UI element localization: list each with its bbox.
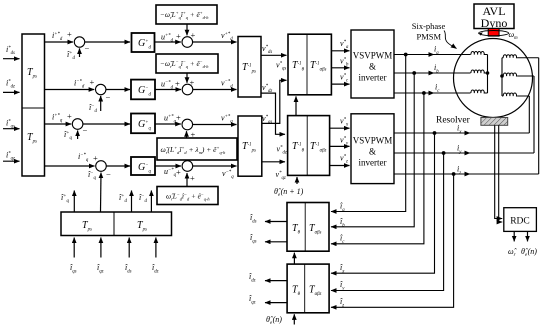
svg-text:+: + (175, 79, 180, 89)
svg-text:v*qz: v*qz (276, 170, 286, 181)
svg-text:v*dz: v*dz (277, 145, 287, 156)
svg-text:îds: îds (250, 213, 257, 225)
svg-text:î+d: î+d (67, 50, 75, 61)
wire feedback ihat-_q into J4 from bottom T_ps (100, 173, 103, 212)
svg-text:+: + (67, 111, 72, 121)
wire theta(n+1) lower to upper Ttheta-1 (295, 96, 297, 115)
sum S4 (182, 161, 193, 172)
svg-text:v−*d: v−*d (221, 79, 233, 90)
right winding star bus (501, 58, 503, 96)
block RDC (504, 208, 537, 232)
svg-text:θ̂e(n): θ̂e(n) (521, 247, 537, 258)
wire theta_e(n) into lower measurement block (293, 314, 295, 324)
svg-text:v−*q: v−*q (222, 169, 234, 180)
junction J4 (96, 161, 107, 172)
junction J2 (96, 84, 106, 94)
wire i_z inverter2 to motor (394, 173, 470, 175)
wire v*_x (330, 127, 350, 129)
wire RDC out theta (527, 231, 529, 241)
svg-text:&: & (369, 147, 376, 157)
wire feedback ihat-_d into J2 (100, 96, 102, 111)
svg-text:i+*q: i+*q (52, 113, 63, 124)
svg-text:inverter: inverter (359, 158, 387, 168)
svg-text:Six-phase: Six-phase (412, 21, 446, 31)
wire S3 to Tps-1 block2 (v+*_q) (193, 124, 237, 126)
wire out ihat-_d bottom blocks (150, 191, 152, 213)
svg-text:v*a: v*a (340, 39, 349, 50)
wire J1 to G+d (85, 41, 130, 43)
wire in ihat_dz bottom (155, 238, 157, 258)
svg-text:î−q: î−q (88, 170, 96, 181)
svg-text:RDC: RDC (510, 217, 530, 227)
svg-text:u−*d: u−*d (161, 80, 174, 91)
feedforward box 3 (157, 138, 237, 160)
svg-text:i*dz: i*dz (6, 79, 15, 90)
svg-text:v*z: v*z (340, 154, 348, 165)
svg-text:inverter: inverter (359, 73, 387, 83)
coupling arrowhead (479, 32, 483, 35)
callout curve to motor (444, 31, 457, 49)
wire out ihat_qs (265, 241, 287, 243)
block Ttheta-1 Talphabeta-1 lower (288, 116, 330, 176)
wire v*_y (330, 145, 350, 147)
svg-text:v*dz: v*dz (262, 83, 272, 94)
junction dot on i_b (412, 71, 416, 75)
svg-text:v+*d: v+*d (221, 31, 233, 42)
svg-text:VSVPWM: VSVPWM (353, 136, 393, 146)
svg-text:îqs: îqs (70, 263, 77, 275)
wire v*_c (331, 83, 349, 85)
sum S2 (182, 84, 193, 95)
block G-q (131, 157, 155, 175)
wire input i*_qz (3, 160, 20, 162)
wire right winding to riser y (mid) (518, 75, 534, 77)
svg-text:ω̂r(L+dî+d + λm) + ê+q-h: ω̂r(L+dî+d + λm) + ê+q-h (161, 145, 227, 155)
svg-text:îqs: îqs (250, 233, 257, 245)
svg-text:v*y: v*y (340, 136, 349, 147)
sum S3 (182, 119, 193, 130)
shaft red coupling (488, 29, 499, 37)
junction J1 (74, 37, 84, 47)
svg-text:Resolver: Resolver (436, 116, 471, 126)
wire theta_e(n) lower to upper measurement block (293, 253, 295, 264)
wire v*_qs route to Ttheta-1 block1 (262, 80, 287, 123)
wire out ihat_ds (265, 221, 287, 223)
wire feedforward4 to S4 (186, 173, 188, 187)
wire v*_z (330, 165, 350, 167)
winding coil y (502, 73, 518, 76)
coupling ellipse (479, 30, 509, 35)
wire row1 T_ps to junction J1 (45, 41, 74, 43)
junction dot on i_z (452, 172, 456, 176)
svg-text:u−*q: u−*q (164, 167, 177, 178)
svg-text:−: − (106, 169, 111, 179)
svg-text:−: − (85, 44, 90, 54)
svg-text:îdz: îdz (249, 272, 256, 284)
wire right winding to riser x (bottom) (518, 95, 530, 97)
wire riser i_y to right winding (533, 76, 535, 153)
wire i_x inverter2 to motor (394, 132, 470, 134)
wire feedback ihat+_d into J1 (79, 48, 81, 57)
svg-text:i*ds: i*ds (6, 45, 15, 56)
wire S1 to Tps-1 block1 (v+*_d) (193, 41, 237, 43)
svg-text:îqz: îqz (97, 263, 104, 275)
wire row3 T_ps to junction J3 (45, 123, 72, 125)
wire v*_ds to Ttheta-1 block1 (261, 54, 287, 56)
svg-text:u+*q: u+*q (164, 114, 177, 125)
svg-text:îds: îds (125, 263, 132, 275)
svg-text:i*qs: i*qs (6, 119, 15, 130)
block Ttheta-1 Talphabeta-1 upper (288, 34, 331, 95)
wire riser i_x to right winding (528, 96, 530, 133)
svg-text:v+*q: v+*q (221, 114, 233, 125)
wire input i*_dz (3, 91, 20, 93)
svg-text:PMSM: PMSM (417, 31, 442, 41)
svg-text:î−d: î−d (139, 193, 147, 204)
block Ttheta Talphabeta-s measurement upper (287, 203, 329, 252)
svg-text:v*c: v*c (340, 73, 349, 84)
wire sense c riser and feed (331, 93, 424, 244)
resolver body (481, 118, 508, 126)
svg-text:−: − (106, 92, 111, 102)
svg-text:−: − (83, 126, 88, 136)
winding coil z (502, 55, 518, 58)
wire S4 to Tps-1 block2 (v-*_q) (193, 165, 237, 167)
svg-text:ωm: ωm (509, 30, 519, 41)
resolver cable line 1 (495, 125, 503, 218)
svg-text:+: + (93, 153, 98, 163)
winding coil c (471, 90, 488, 93)
wire J3 to G+q (83, 123, 130, 125)
wire i_a inverter1 to motor (394, 54, 434, 56)
wire RDC out omega (513, 231, 515, 241)
svg-text:i−*d: i−*d (74, 79, 85, 90)
svg-text:ω̂r: ω̂r (508, 247, 517, 258)
block G+q (131, 114, 155, 134)
svg-text:ic: ic (435, 83, 440, 95)
winding coil b (471, 70, 488, 73)
wire i_y inverter2 to motor (394, 152, 470, 154)
wire G-d to sum S2 (155, 89, 181, 91)
svg-text:+: + (67, 29, 72, 39)
wire sense y riser and feed (331, 153, 444, 291)
wire sense z riser and feed (331, 174, 454, 307)
right star dot (500, 74, 504, 78)
svg-text:+: + (176, 31, 181, 41)
winding coil x (502, 93, 518, 96)
wire out ihat+_q bottom blocks (73, 191, 75, 213)
svg-text:v*qs: v*qs (276, 61, 286, 72)
wire out ihat_dz (265, 280, 287, 282)
wire feedforward1 to S1 (186, 24, 188, 35)
svg-text:θ̂e(n + 1): θ̂e(n + 1) (274, 187, 304, 198)
junction dot on i_a (404, 53, 408, 57)
svg-text:i−*q: i−*q (78, 152, 89, 163)
wire theta(n+1) into lower Ttheta-1 (296, 177, 298, 184)
winding coil a (471, 52, 488, 55)
junction J3 (72, 119, 83, 130)
svg-text:îy: îy (340, 280, 345, 292)
left winding star bus (487, 55, 489, 94)
block AVL Dyno (474, 4, 514, 29)
svg-text:i+*d: i+*d (52, 31, 63, 42)
wire out ihat_qz (265, 302, 287, 304)
wire out ihat+_d bottom blocks (131, 191, 133, 213)
motor circle six-phase PMSM (454, 39, 533, 118)
wire row2 T_ps to junction J2 (45, 89, 95, 91)
svg-text:+: + (190, 173, 195, 183)
block VSVPWM inverter 2 (351, 114, 394, 184)
wire J4 to G-q (106, 165, 130, 167)
svg-text:i*qz: i*qz (6, 151, 15, 162)
wire feedforward2 to S2 (186, 73, 188, 83)
wire in ihat_qz bottom (100, 238, 102, 258)
wire in ihat_ds bottom (128, 238, 130, 258)
wire riser i_z to right winding (538, 58, 540, 174)
svg-text:îqz: îqz (249, 294, 256, 306)
block G+d (132, 33, 155, 52)
svg-text:ω̂rL−dî−d + ê−q-h: ω̂rL−dî−d + ê−q-h (166, 192, 210, 202)
svg-text:î+d: î+d (119, 193, 127, 204)
svg-text:îdz: îdz (152, 263, 159, 275)
feedforward box 1 (156, 5, 217, 24)
svg-text:VSVPWM: VSVPWM (353, 51, 393, 61)
wire S2 to Tps-1 block1 (v-*_d) (193, 89, 237, 91)
svg-text:Dyno: Dyno (481, 16, 508, 30)
svg-text:θ̂e(n): θ̂e(n) (266, 315, 282, 326)
wire v*_dz route to Ttheta-1 block2 (261, 93, 285, 134)
junction dot on i_y (442, 151, 446, 155)
feedforward box 2 (156, 54, 218, 73)
wire row4 T_ps to junction J4 (45, 165, 95, 167)
wire i_c inverter1 to motor (394, 92, 434, 94)
block Tps-1 upper (238, 37, 261, 98)
wire sense a riser and feed to T_alphabeta-s (331, 55, 406, 212)
wire G-q to sum S4 (155, 165, 181, 167)
svg-text:v*ds: v*ds (262, 44, 272, 55)
block T_ps reference transform 1 (22, 34, 45, 176)
svg-text:&: & (369, 62, 376, 72)
left star dot (486, 71, 490, 75)
wire sense x riser and feed (331, 133, 435, 273)
block G-d (131, 80, 155, 100)
resolver cable line 2 (499, 125, 503, 222)
wire J2 to G-d (106, 89, 130, 91)
block VSVPWM inverter 1 (351, 30, 394, 98)
wire v*_b (331, 67, 349, 69)
block bottom T_ps left (61, 212, 172, 236)
wire G+d to sum S1 (155, 41, 181, 43)
wire input i*_qs (3, 128, 20, 130)
svg-text:v*x: v*x (340, 117, 349, 128)
block Tps-1 lower (238, 116, 262, 176)
svg-text:+: + (176, 167, 181, 177)
block Ttheta Talphabeta-z measurement lower (287, 264, 329, 313)
sum S1 (182, 37, 193, 48)
wire in ihat_qs bottom (73, 238, 75, 258)
wire feedforward3 to S3 (186, 131, 188, 138)
wire v*_qz to Ttheta-1 block2 (262, 161, 285, 163)
wire feedback ihat+_q into J3 (77, 131, 79, 140)
svg-text:î−d: î−d (89, 103, 97, 114)
wire sense b riser and feed (331, 73, 414, 227)
junction dot on i_x (433, 131, 437, 135)
svg-text:+: + (176, 113, 181, 123)
svg-text:+: + (90, 77, 95, 87)
svg-text:î+q: î+q (64, 130, 72, 141)
feedforward box 4 (157, 187, 218, 205)
svg-text:î+q: î+q (61, 193, 69, 204)
wire v*_a (331, 50, 349, 52)
wire G+q to sum S3 (155, 123, 181, 125)
svg-text:v*b: v*b (340, 57, 349, 68)
junction dot on i_c (422, 91, 426, 95)
wire i_b inverter1 to motor (394, 72, 434, 74)
wire input i*_ds (3, 58, 20, 60)
wire right winding to riser z (top) (518, 57, 539, 59)
